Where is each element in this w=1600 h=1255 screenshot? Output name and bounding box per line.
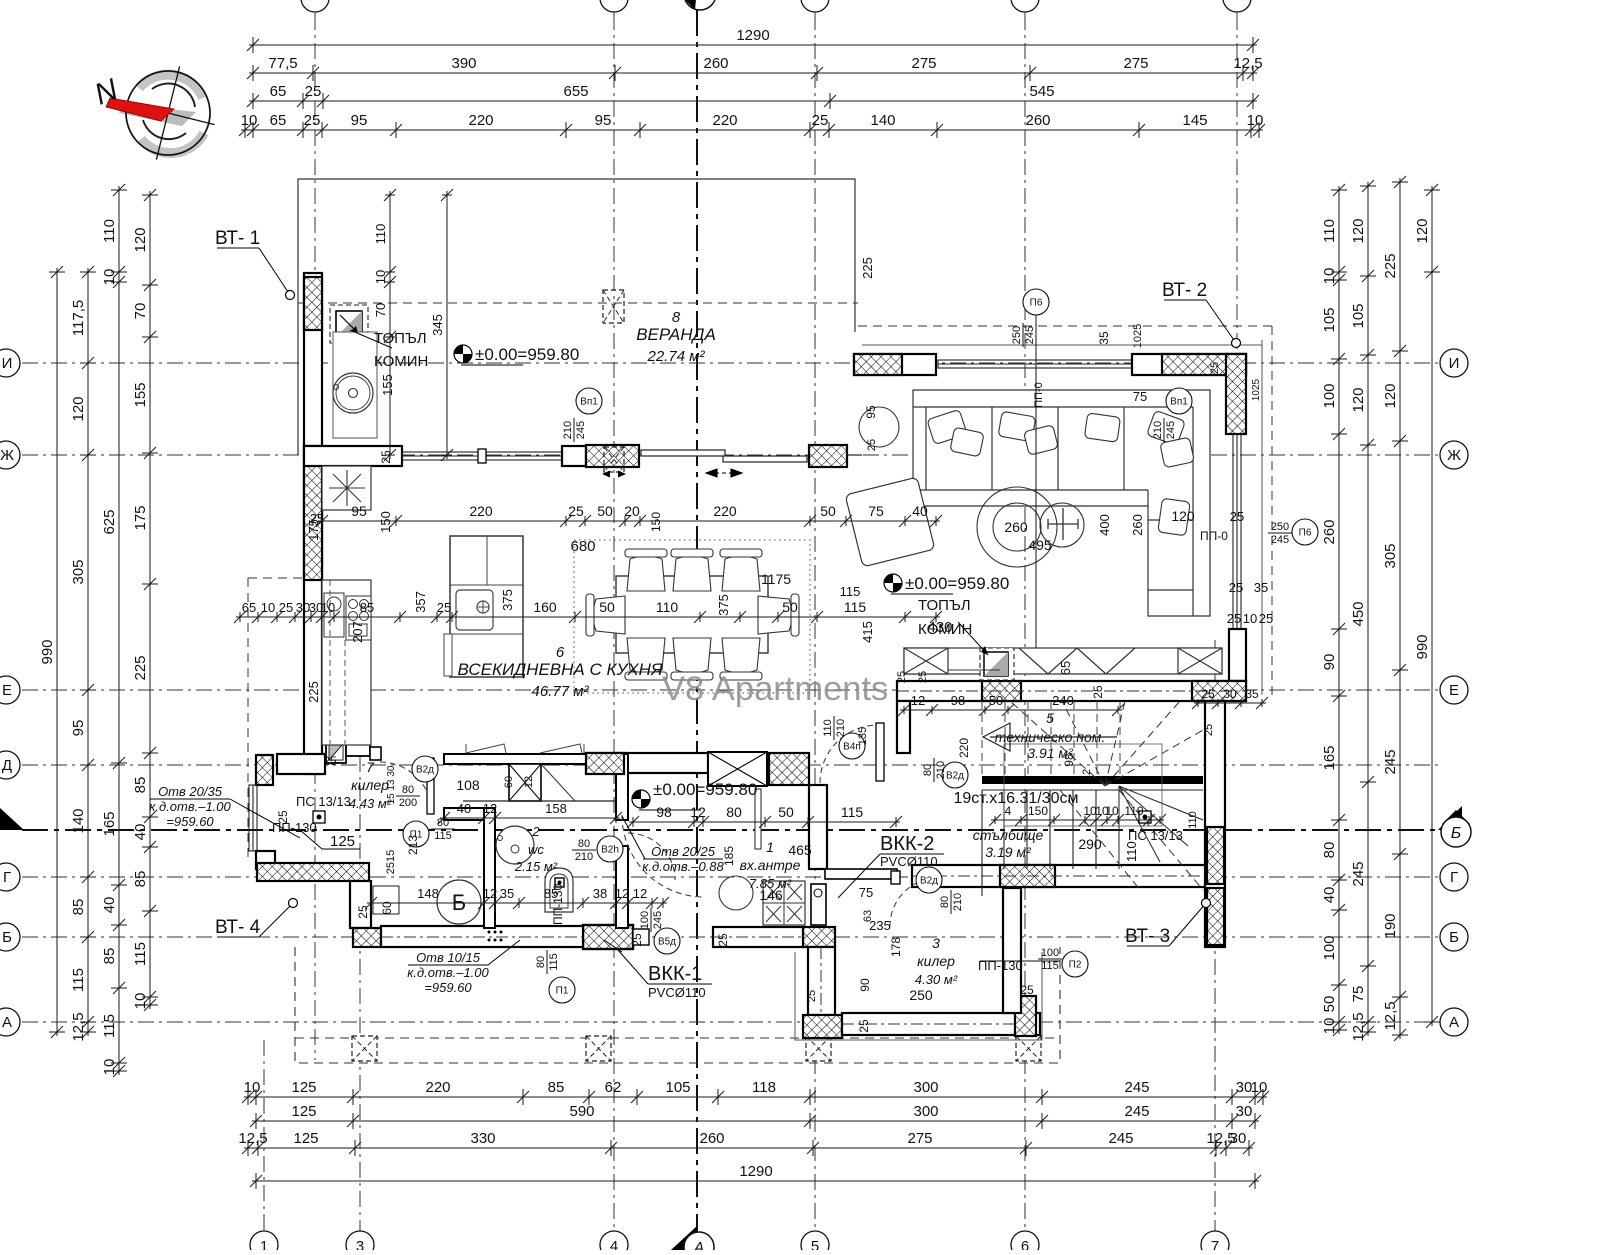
svg-text:10: 10 [1105,804,1119,818]
roof overhang thin line right [1261,340,1263,695]
column hatch east wall top [1226,354,1246,434]
stairs lower flight steps [982,790,1096,896]
svg-text:25: 25 [310,511,324,526]
dimension right row1 [1331,184,1347,1036]
grid line 5 vertical [814,14,816,1232]
svg-text:ВКК-2: ВКК-2 [880,833,934,855]
svg-text:25: 25 [1209,362,1221,374]
svg-text:30: 30 [1223,687,1237,701]
column hatch killer3 se [1015,996,1036,1036]
svg-text:Отв 20/35: Отв 20/35 [158,784,223,799]
svg-text:135: 135 [857,727,869,745]
svg-text:10: 10 [321,600,335,615]
svg-text:60: 60 [380,901,394,915]
svg-text:ВТ- 2: ВТ- 2 [1162,280,1207,301]
svg-text:1: 1 [766,839,774,855]
chair dining top 3 [720,549,762,591]
svg-text:115: 115 [841,804,864,820]
svg-text:120: 120 [70,396,87,421]
svg-text:390: 390 [451,55,476,72]
svg-text:Е: Е [1449,682,1459,699]
grid bubble 5 top [801,0,829,12]
frac P1 left [431,817,455,842]
interior chain x390 [384,189,396,461]
svg-text:7: 7 [366,759,375,775]
svg-text:110: 110 [1321,219,1338,243]
svg-text:А: А [2,1014,12,1031]
svg-text:Б: Б [1451,825,1461,842]
cooktop star symbol [329,470,365,506]
note vent bottom [407,950,489,995]
column hatch entrance north east [769,753,809,785]
dimension left total 990 [49,266,65,1038]
svg-text:245: 245 [652,911,664,929]
svg-text:Отв 10/15: Отв 10/15 [416,950,481,965]
svg-text:Б: Б [1449,929,1459,946]
svg-text:ТОПЪЛ: ТОПЪЛ [374,330,427,347]
svg-text:63: 63 [862,910,874,922]
svg-text:75: 75 [1350,986,1367,1003]
svg-text:10: 10 [1247,112,1264,129]
svg-text:115: 115 [101,1014,118,1038]
svg-text:95: 95 [351,503,367,519]
svg-text:160: 160 [533,599,557,615]
sofa U-shaped [913,390,1210,616]
svg-text:25: 25 [1229,580,1243,595]
dimension left row4 [142,189,158,1011]
grid line 4 vertical [613,14,615,1232]
svg-text:220: 220 [957,738,971,758]
frac P6 top [1011,323,1036,347]
veranda post dashed at door [604,447,624,472]
svg-text:2.15 м²: 2.15 м² [514,859,558,874]
porch slab thin edge [795,952,1042,1040]
svg-text:117,5: 117,5 [70,300,87,336]
grid bubble Е left [0,676,20,704]
svg-text:165: 165 [1321,745,1338,770]
svg-text:250: 250 [1011,326,1023,344]
svg-text:260: 260 [1004,519,1028,535]
wc toilet [545,868,573,912]
svg-text:±0.00=959.80: ±0.00=959.80 [905,574,1009,593]
svg-text:Б: Б [2,929,12,946]
porch post dashed at 806 [806,1036,831,1061]
wall living north west part [854,354,936,375]
svg-text:100: 100 [1321,935,1338,960]
pier between windows [478,449,486,463]
svg-text:100: 100 [1041,947,1059,959]
dimension top row2 [247,65,1259,81]
dim row tech y710 [898,704,1124,716]
entry mat [763,881,805,925]
svg-text:225: 225 [1382,253,1399,278]
svg-text:12,5: 12,5 [238,1130,267,1147]
marker VKK-2 [838,833,944,898]
grid line 2 vertical [314,14,316,1060]
island sink [456,590,493,630]
svg-text:25: 25 [304,112,321,129]
svg-text:245: 245 [1165,421,1177,439]
chair dining bottom 3 [720,638,762,680]
grid bubble 1 bottom [250,1231,278,1255]
frac V2d killer [396,784,420,809]
marker BT-3 [1125,899,1211,948]
svg-text:12: 12 [633,886,647,901]
dimension right row4 [1424,184,1440,1028]
svg-text:ПП-0: ПП-0 [1033,382,1045,408]
svg-text:1025: 1025 [1132,324,1144,348]
svg-text:вх.антре: вх.антре [740,857,801,873]
grid bubble Ж left [0,441,20,469]
svg-text:10: 10 [1321,1018,1338,1035]
svg-text:213: 213 [406,835,420,855]
svg-text:30: 30 [1236,1103,1253,1120]
svg-text:225: 225 [306,681,321,703]
entry door leaf [811,884,826,925]
svg-text:120: 120 [1350,387,1367,412]
svg-text:105: 105 [665,1079,690,1096]
svg-text:80: 80 [726,804,742,820]
svg-text:50: 50 [597,503,613,519]
svg-text:95: 95 [351,112,368,129]
svg-text:10: 10 [1321,268,1338,285]
svg-text:25: 25 [305,83,322,100]
column hatch bath west [256,755,273,785]
closet front line [463,800,616,802]
svg-text:7: 7 [1211,1238,1219,1250]
svg-text:к.д.отв.–0.88: к.д.отв.–0.88 [642,859,724,874]
svg-text:50: 50 [778,804,794,820]
room label technical [973,710,1106,860]
svg-text:85: 85 [132,871,149,888]
svg-text:2515: 2515 [385,850,397,874]
svg-text:210: 210 [935,761,947,779]
tag P1 bottom [549,977,575,1003]
grid line Г horizontal [22,876,1440,878]
dimension right row3 [1392,176,1408,1041]
entrance circle symbol [719,876,753,910]
wc basin [496,826,534,864]
grid bubble Е right [1440,676,1468,704]
svg-text:25: 25 [896,671,908,683]
tag P2 [1062,951,1088,977]
roof overhang dashed left lower [247,578,249,862]
svg-text:75: 75 [859,885,873,900]
svg-text:115: 115 [132,942,149,966]
svg-text:165: 165 [101,811,118,836]
wall centerline living south [897,690,1246,692]
svg-text:545: 545 [1029,83,1054,100]
chimney BT-1 dashed box [330,305,368,343]
veranda counter [333,332,377,438]
wall east living lower part [1229,629,1246,681]
svg-text:305: 305 [1382,543,1399,568]
svg-text:10: 10 [1251,1079,1268,1096]
svg-text:95: 95 [595,112,612,129]
svg-text:Вп1: Вп1 [1170,397,1188,408]
column hatch living south 1 [982,681,1021,701]
svg-text:85: 85 [70,899,87,916]
svg-text:75: 75 [868,503,884,519]
tag V2d killer3 [916,867,942,893]
window bath west [249,785,257,851]
svg-text:115: 115 [70,968,87,992]
svg-text:КОМИН: КОМИН [374,353,428,370]
svg-text:75: 75 [1133,389,1147,404]
shaft P1 kitchen [326,741,346,763]
svg-text:25: 25 [1091,685,1105,699]
svg-text:Д: Д [2,757,12,774]
grid line Д horizontal [22,764,1440,766]
svg-text:245: 245 [1124,1079,1149,1096]
column hatch bath south [353,928,381,947]
wall entrance east upper [809,785,827,869]
svg-text:90: 90 [858,978,872,992]
svg-text:±0.00=959.80: ±0.00=959.80 [653,780,757,799]
svg-text:245: 245 [1271,534,1289,546]
svg-text:12: 12 [1081,769,1093,781]
dimension bottom total 1290 [250,1173,1261,1189]
dimension left row3 [111,184,127,1077]
wall kitchen north west part [304,446,402,466]
svg-text:125: 125 [293,1130,318,1147]
column hatch west mid [304,446,322,580]
roof overhang dashed line east [1271,326,1273,700]
column hatch living north east [1162,354,1246,375]
porch post dashed at 1016 [1016,1036,1041,1061]
wall tie veranda to living [847,454,862,456]
section marker A bottom [671,1226,714,1255]
svg-text:260: 260 [699,1130,724,1147]
svg-text:125: 125 [291,1079,316,1096]
flue dashed 1 [329,580,331,744]
wall centerline stairs south [912,875,1205,877]
svg-text:25: 25 [279,600,293,615]
svg-text:98: 98 [951,693,965,708]
chimney warm dashed box [980,648,1014,680]
roof overhang dashed line east-top [858,325,1272,327]
svg-text:210: 210 [835,719,847,737]
grid bubble Б left [0,923,20,951]
elevation mark living [884,574,1009,594]
dim row y521 [316,515,942,527]
svg-text:125: 125 [291,1103,316,1120]
svg-text:220: 220 [425,1079,450,1096]
grid bubble 7 bottom [1201,1231,1229,1255]
kitchen island [450,536,523,677]
svg-text:8: 8 [672,309,681,326]
svg-text:35: 35 [1254,580,1268,595]
svg-text:ВТ- 1: ВТ- 1 [215,228,260,249]
svg-text:19ст.х16.31/30см: 19ст.х16.31/30см [953,790,1078,807]
wall bath-wc partition [484,808,495,928]
column hatch east stairs lower [1207,888,1224,945]
svg-text:ПС 13/13: ПС 13/13 [296,794,351,809]
P6 leader line down [1035,315,1037,648]
frac V2d killer3 [939,890,964,914]
tag V2d tech [942,762,968,788]
svg-text:10: 10 [101,1059,118,1076]
svg-text:25: 25 [1259,611,1273,626]
dimension bottom row2 [250,1113,1261,1129]
svg-text:В2д: В2д [946,771,964,782]
tag P1 left [403,821,429,847]
svg-text:25: 25 [1201,687,1215,701]
wall bath north [444,808,484,820]
dimension top row4 [239,122,1265,138]
svg-text:3: 3 [356,1238,364,1250]
chair dining left [586,594,625,636]
wall kitchen south west [277,754,325,774]
svg-text:40: 40 [1321,887,1338,904]
svg-text:210: 210 [575,851,593,863]
frac P1 bottom [535,950,560,974]
sofa pillows [927,409,1195,535]
grid bubble Г left [0,863,20,891]
svg-text:225: 225 [860,257,875,279]
sliding door veranda [641,450,807,462]
dishwasher [324,593,344,637]
svg-text:220: 220 [713,503,737,519]
tag Vp1 east [1166,388,1192,414]
svg-text:40: 40 [101,897,118,914]
stairs guide rect [1004,744,1162,826]
svg-text:П1: П1 [556,986,569,997]
wall entrance south [713,927,803,947]
grid line Б horizontal [22,936,1440,938]
roof overhang thin line top-right [862,344,1262,346]
chair dining bottom 1 [625,638,667,680]
svg-text:140: 140 [870,112,895,129]
wall killer3 south [842,1013,1040,1035]
svg-text:40: 40 [132,824,149,841]
svg-text:200: 200 [399,797,417,809]
svg-text:20: 20 [624,503,640,519]
tag V5d [654,928,680,954]
svg-text:65: 65 [242,600,256,615]
svg-text:240: 240 [1052,693,1074,708]
veranda outline [298,179,855,455]
svg-text:65: 65 [270,83,287,100]
svg-text:Вп1: Вп1 [580,397,598,408]
svg-text:990: 990 [1414,634,1431,659]
frac V2h wc [572,838,596,863]
svg-text:4: 4 [610,1238,618,1250]
svg-text:110: 110 [1124,804,1143,818]
svg-text:85: 85 [548,1079,565,1096]
grid bubble И left [0,349,20,377]
svg-text:275: 275 [911,55,936,72]
svg-text:В2д: В2д [416,765,434,776]
wall centerline wc south [381,936,583,938]
interior chain x447 [441,189,453,461]
flue dashed 2 [344,640,346,744]
svg-text:375: 375 [500,589,515,611]
svg-text:260: 260 [1025,112,1050,129]
column hatch entrance north west repaint [586,753,624,774]
room label entrance [740,839,801,891]
wall bath south vertical [350,881,371,928]
svg-text:12,5: 12,5 [1233,55,1262,72]
dim row stairs [989,814,1166,826]
svg-text:95: 95 [864,405,878,419]
svg-text:Отв 20/25: Отв 20/25 [651,844,716,859]
svg-text:115: 115 [1041,960,1059,972]
svg-text:П6: П6 [1299,528,1312,539]
dimension right row2 [1360,180,1376,1038]
marker VKK-1 [604,940,712,1000]
section line B-B horizontal [22,829,1440,831]
stairs upper flight steps [982,701,1120,776]
svg-text:77,5: 77,5 [268,55,297,72]
svg-text:25: 25 [806,990,818,1002]
door arc wc [628,833,675,880]
svg-text:245: 245 [575,421,587,439]
grid bubble 4 top [600,0,628,12]
frac Vp1 east [1152,418,1177,442]
closet hanger diagonals [466,744,584,753]
svg-text:к.д.отв.–1.00: к.д.отв.–1.00 [149,799,231,814]
wall entrance north [624,753,708,773]
svg-text:ВТ- 3: ВТ- 3 [1125,926,1170,947]
svg-text:ВТ- 4: ВТ- 4 [215,917,261,938]
svg-text:80: 80 [578,838,590,850]
svg-text:100: 100 [1321,383,1338,408]
svg-text:105: 105 [1350,303,1367,328]
roof overhang dashed line north [298,302,858,304]
wall wc east lower [616,846,628,928]
roof overhang dashed left top [248,577,304,579]
section marker A top [673,0,716,10]
svg-text:330: 330 [470,1130,495,1147]
tag V2h wc [597,836,623,862]
svg-text:35: 35 [500,886,514,901]
window living north [938,360,1132,368]
svg-text:50: 50 [1321,996,1338,1013]
svg-text:35: 35 [1097,331,1111,345]
svg-text:40: 40 [457,801,471,816]
grid bubble Д left [0,751,20,779]
svg-text:1290: 1290 [739,1163,772,1180]
svg-text:10: 10 [373,270,388,284]
wall centerline killer3 west [820,947,822,1015]
svg-text:10: 10 [261,600,275,615]
door arc killer7 [380,762,432,814]
P2 leader line [980,960,1060,962]
tag V2d door killer [412,756,438,782]
window east wall [1233,434,1241,629]
wall east stairs [1205,701,1225,947]
svg-text:12: 12 [483,886,497,901]
grid bubble 3 bottom [346,1231,374,1255]
svg-text:15 13 30: 15 13 30 [386,765,397,804]
svg-text:220: 220 [468,112,493,129]
svg-text:25: 25 [356,905,370,919]
column hatch east stairs upper [1207,827,1224,884]
roof overhang dashed south [295,947,1060,1063]
svg-text:260: 260 [1321,519,1338,544]
svg-text:290: 290 [1078,836,1102,852]
svg-text:70: 70 [132,303,149,320]
svg-text:90: 90 [1321,654,1338,671]
frac P2 [1038,947,1062,972]
frac V4p [822,716,847,740]
column hatch killer3 sw [803,1015,842,1038]
svg-text:990: 990 [39,639,56,664]
svg-text:38: 38 [593,886,607,901]
svg-text:275: 275 [1123,55,1148,72]
grid bubble 2 top [301,0,329,12]
